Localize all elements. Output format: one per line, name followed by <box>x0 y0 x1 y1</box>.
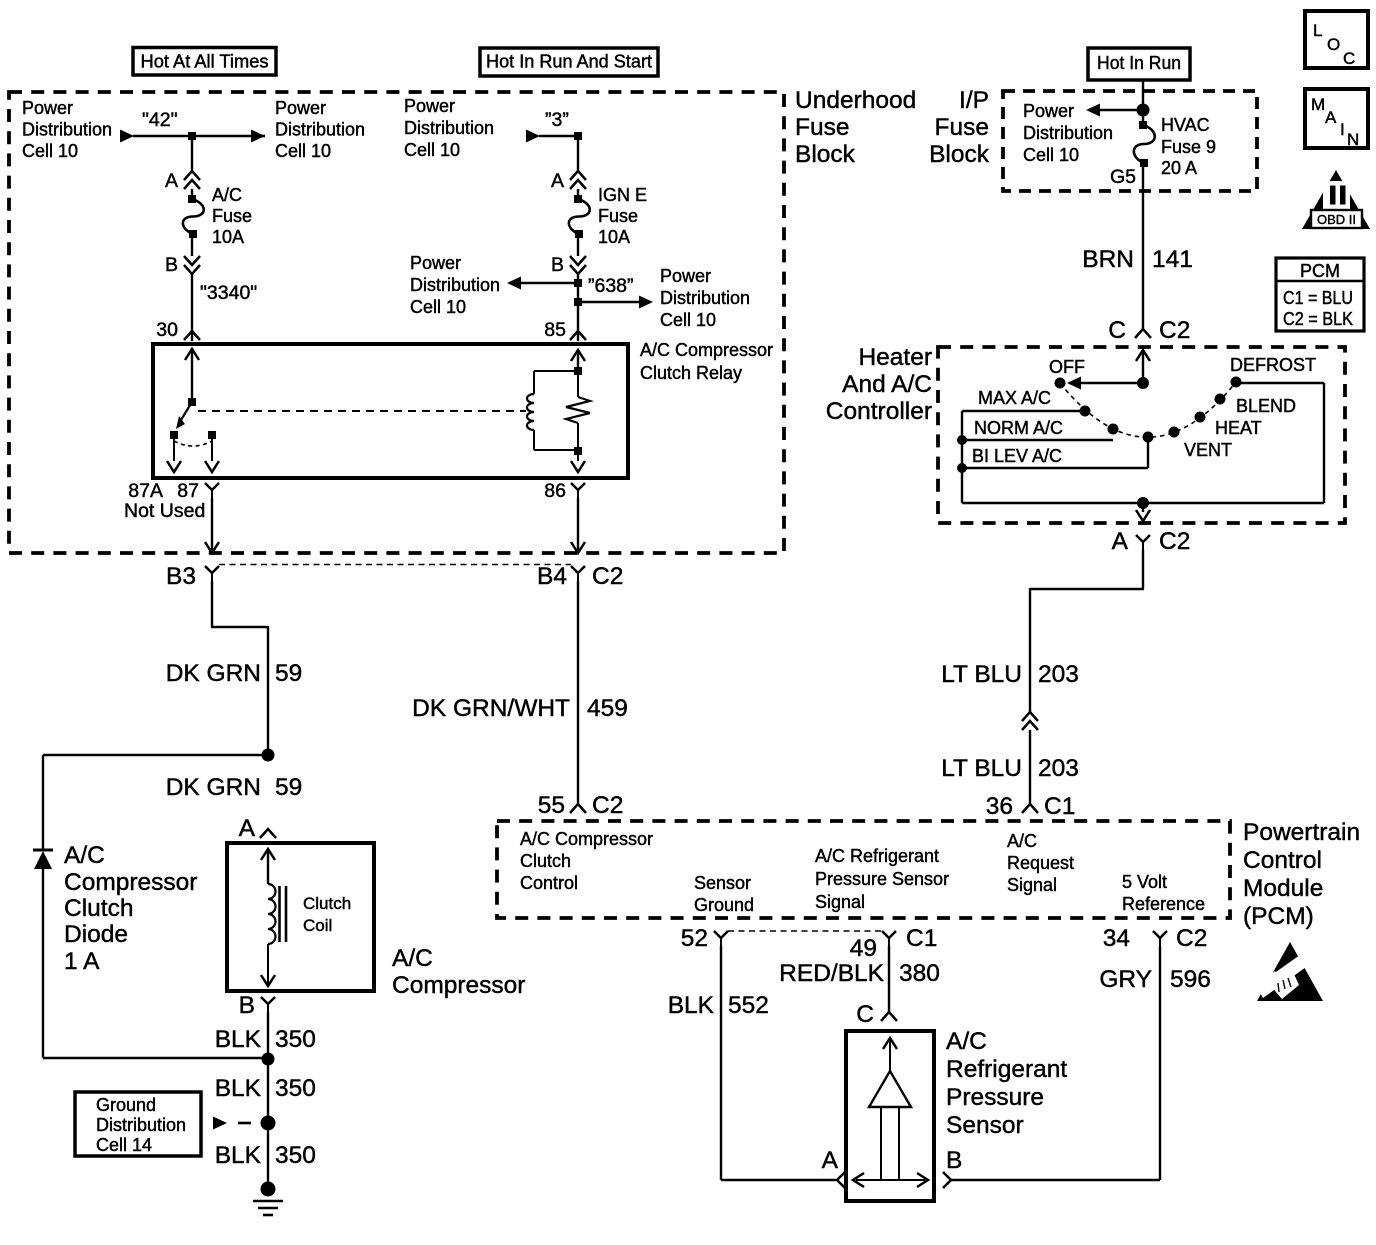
svg-text:Sensor: Sensor <box>946 1112 1024 1139</box>
label BLEND <box>1236 396 1296 416</box>
svg-text:M: M <box>1311 95 1325 114</box>
svg-text:Hot At All Times: Hot At All Times <box>141 52 269 72</box>
label BLK 350 (3) <box>215 1142 316 1169</box>
label MAX A/C <box>978 388 1051 408</box>
connector female sensor B <box>943 1172 951 1188</box>
svg-text:LT BLU: LT BLU <box>941 755 1022 782</box>
connector female B3 <box>205 566 219 581</box>
svg-text:Distribution: Distribution <box>275 120 365 140</box>
svg-text:Clutch: Clutch <box>303 894 351 913</box>
wire NORM A/C line <box>962 439 1113 441</box>
svg-text:OFF: OFF <box>1049 357 1085 377</box>
rotary contact HEAT <box>1195 412 1206 423</box>
svg-text:203: 203 <box>1038 661 1079 688</box>
label LT BLU 203 (upper) <box>941 661 1079 688</box>
svg-text:BI LEV A/C: BI LEV A/C <box>972 446 1062 466</box>
svg-text:IGN E: IGN E <box>598 185 647 205</box>
label C2 (at B4) <box>592 563 623 590</box>
svg-text:Hot In Run: Hot In Run <box>1097 53 1181 73</box>
label HEAT <box>1215 418 1262 438</box>
rotary contact VENT <box>1169 427 1180 438</box>
rotary contact DEFROST <box>1231 377 1242 388</box>
junction node left bus / NORM <box>957 435 967 445</box>
MAIN reference box <box>1305 89 1368 149</box>
svg-text:DK GRN: DK GRN <box>166 774 261 801</box>
svg-text:Ground: Ground <box>694 895 754 915</box>
svg-text:A/C: A/C <box>946 1028 987 1055</box>
fuse F IGN E 10A <box>569 195 590 238</box>
rotary switch dashed arc <box>1060 382 1236 437</box>
svg-text:Pressure Sensor: Pressure Sensor <box>815 869 949 889</box>
svg-text:5 Volt: 5 Volt <box>1122 872 1167 892</box>
wire down to fuse terminal A <box>191 136 193 171</box>
label '638' <box>588 275 634 297</box>
wire controller A to inline connector (LT BLU) <box>1030 550 1144 712</box>
svg-text:"3340": "3340" <box>200 282 257 304</box>
sensor pressure arrow left leg <box>880 1107 882 1179</box>
svg-text:MAX A/C: MAX A/C <box>978 388 1051 408</box>
label C1 (at 36) <box>1044 793 1075 820</box>
label DEFROST <box>1230 355 1316 375</box>
label G5 <box>1110 166 1136 188</box>
svg-text:”638”: ”638” <box>588 275 634 297</box>
svg-text:86: 86 <box>544 480 566 502</box>
svg-text:Control: Control <box>1243 847 1322 874</box>
svg-text:Hot In Run And Start: Hot In Run And Start <box>486 52 652 72</box>
label Sensor Ground <box>694 873 754 915</box>
svg-text:Cell 10: Cell 10 <box>660 310 716 330</box>
label '3' <box>545 109 569 131</box>
svg-text:596: 596 <box>1170 966 1211 993</box>
svg-text:DEFROST: DEFROST <box>1230 355 1316 375</box>
sensor pressure double arrow <box>853 1173 928 1187</box>
svg-text:O: O <box>1327 35 1340 54</box>
svg-text:87A: 87A <box>128 480 163 502</box>
svg-text:Distribution: Distribution <box>96 1115 186 1135</box>
svg-text:36: 36 <box>986 793 1013 820</box>
svg-text:459: 459 <box>587 695 628 722</box>
svg-text:Compressor: Compressor <box>392 972 525 999</box>
relay coil (inductor) <box>527 394 534 430</box>
connector female B4 <box>571 566 585 581</box>
connector male compressor A <box>260 829 276 838</box>
svg-text:G5: G5 <box>1110 166 1136 188</box>
svg-text:BRN: BRN <box>1082 246 1134 273</box>
rotary contact OFF <box>1055 378 1066 389</box>
arrow to Power Distribution (right) <box>251 130 265 143</box>
wire 49 to sensor C (RED/BLK) <box>888 946 890 1012</box>
label pin 86 <box>544 480 566 502</box>
wire+arrow to Power Distribution (right of 638) <box>578 296 653 309</box>
relay coil bottom junction square <box>574 447 582 455</box>
svg-text:(PCM): (PCM) <box>1243 903 1314 930</box>
svg-text:BLK: BLK <box>215 1075 262 1102</box>
svg-text:OBD II: OBD II <box>1317 212 1356 227</box>
svg-text:Not Used: Not Used <box>124 500 205 522</box>
svg-text:Underhood: Underhood <box>795 87 916 114</box>
connector female pin 87 <box>205 483 219 498</box>
controller bottom bus <box>962 502 1324 504</box>
svg-text:Distribution: Distribution <box>1023 123 1113 143</box>
label '3340' <box>200 282 257 304</box>
fuse F A/C 10A <box>183 195 204 238</box>
wire 34 to sensor B (GRY) <box>951 946 1160 1180</box>
label Heater And A/C Controller <box>826 344 932 425</box>
sensor input lead with up arrow <box>883 1038 897 1071</box>
label HVAC Fuse 9 20 A <box>1161 115 1216 178</box>
controller output lead with down arrow <box>1136 503 1150 521</box>
svg-text:A: A <box>165 170 178 192</box>
svg-text:C2 = BLK: C2 = BLK <box>1283 309 1353 329</box>
svg-text:Coil: Coil <box>303 916 332 935</box>
svg-text:NORM A/C: NORM A/C <box>974 418 1063 438</box>
arrow from Power Distribution into '3' bus <box>526 130 540 143</box>
svg-text:Cell 10: Cell 10 <box>275 141 331 161</box>
label IGN E Fuse 10A <box>598 185 647 247</box>
connector male pin 30 <box>184 331 200 340</box>
relay box A/C Compressor Clutch Relay <box>153 344 628 478</box>
text Power Distribution Cell 10 (I/P) <box>1023 101 1113 165</box>
label BLK 350 (2) <box>215 1075 316 1102</box>
controller left bus <box>961 411 963 503</box>
label A/C Compressor Clutch Diode 1 A <box>64 842 197 975</box>
label BLK 552 <box>668 992 769 1019</box>
svg-text:Fuse: Fuse <box>935 114 989 141</box>
wire+arrow to OFF contact <box>1067 377 1143 390</box>
wire '638' bus segment <box>577 274 579 341</box>
svg-text:Power: Power <box>660 266 711 286</box>
connector male 36 <box>1022 804 1038 813</box>
label Powertrain Control Module (PCM) <box>1243 819 1360 930</box>
wire A to IGN E fuse <box>577 189 579 199</box>
junction square node 3/IGNE-fuse <box>574 132 582 140</box>
label A/C Compressor Clutch Control <box>520 829 653 893</box>
diode A/C compressor clutch diode <box>33 850 53 869</box>
clutch coil bottom lead with down arrow <box>261 944 275 986</box>
relay resistor upper lead <box>577 375 579 397</box>
wire '42' horizontal bus <box>133 135 265 137</box>
relay 87 lead with down arrow <box>205 439 219 472</box>
label B (A/C fuse term) <box>165 254 178 276</box>
text Power Distribution Cell 10 (mid feed) <box>404 96 494 160</box>
svg-text:380: 380 <box>899 960 940 987</box>
relay resistor zigzag <box>566 397 590 423</box>
A/C compressor box <box>227 843 374 991</box>
svg-text:A: A <box>239 815 256 842</box>
connector pair A (IGN E, double chevron) <box>570 171 586 189</box>
connector female 34 <box>1153 931 1167 946</box>
label 49 <box>850 935 877 962</box>
text Power Distribution Cell 10 (right of 638) <box>660 266 750 330</box>
label C2 (at 55) <box>592 792 623 819</box>
svg-text:Cell 10: Cell 10 <box>22 141 78 161</box>
Underhood Fuse Block dashed enclosure <box>9 92 784 553</box>
wire '3' horizontal <box>539 135 578 137</box>
svg-text:C1: C1 <box>906 925 937 952</box>
wire pin86 to fuse-block edge <box>571 498 585 553</box>
inline connector (double chevron) <box>1022 712 1038 730</box>
junction square node 638 right <box>574 298 582 306</box>
svg-text:C2: C2 <box>1159 317 1190 344</box>
connector female pin 86 <box>571 483 585 498</box>
svg-text:Clutch: Clutch <box>520 851 571 871</box>
svg-text:A/C: A/C <box>1007 831 1037 851</box>
svg-text:B: B <box>551 254 564 276</box>
label A/C Refrigerant Pressure Sensor <box>946 1028 1067 1139</box>
label box 'Hot In Run' <box>1088 48 1190 80</box>
svg-text:Fuse 9: Fuse 9 <box>1161 137 1216 157</box>
label Underhood Fuse Block <box>795 87 916 168</box>
svg-text:Distribution: Distribution <box>410 275 500 295</box>
svg-text:Signal: Signal <box>1007 875 1057 895</box>
controller input lead with up arrow <box>1136 350 1150 383</box>
label I/P Fuse Block <box>929 87 990 168</box>
svg-text:Cell 10: Cell 10 <box>410 297 466 317</box>
svg-text:A: A <box>551 170 564 192</box>
svg-text:A: A <box>1112 528 1129 555</box>
wire DEFROST to right bus <box>1236 383 1324 503</box>
svg-text:Clutch Relay: Clutch Relay <box>640 363 742 383</box>
label '42' <box>142 109 178 131</box>
svg-text:Power: Power <box>1023 101 1074 121</box>
relay 87A lead with down arrow <box>167 439 181 472</box>
label C (controller pin) <box>1108 317 1126 344</box>
svg-text:Block: Block <box>929 141 990 168</box>
svg-text:Diode: Diode <box>64 921 128 948</box>
svg-text:20 A: 20 A <box>1161 158 1197 178</box>
svg-text:Power: Power <box>275 98 326 118</box>
label A/C Compressor <box>392 945 525 999</box>
relay dashed arc between contacts <box>174 441 212 446</box>
fine dashed connector line B3-B4 <box>219 564 571 566</box>
svg-text:BLK: BLK <box>215 1026 262 1053</box>
connector pair B (double chevron down) <box>184 256 200 274</box>
label A (controller out) <box>1112 528 1129 555</box>
OBD II symbol <box>1302 170 1370 229</box>
wire+arrow to Power Distribution (left) <box>507 277 578 290</box>
ESD sensitivity symbol <box>1256 942 1323 1001</box>
svg-text:10A: 10A <box>212 227 244 247</box>
junction square node 42/A-fuse <box>188 132 196 140</box>
svg-text:A/C: A/C <box>212 185 242 205</box>
PCM connector legend box <box>1276 258 1364 331</box>
label C (sensor pin) <box>856 1001 874 1028</box>
svg-text:L: L <box>1313 21 1322 40</box>
svg-text:Cell 14: Cell 14 <box>96 1135 152 1155</box>
rotary wiper contact <box>1143 432 1154 443</box>
wire BRN 141 down to controller <box>1142 163 1144 329</box>
svg-text:N: N <box>1347 130 1359 149</box>
svg-text:C: C <box>856 1001 874 1028</box>
connector female controller A <box>1136 535 1150 550</box>
relay pin85 internal line with up arrow <box>571 350 585 371</box>
svg-text:Refrigerant: Refrigerant <box>946 1056 1067 1083</box>
svg-text:Block: Block <box>795 141 856 168</box>
rotary contact NORM A/C <box>1108 424 1119 435</box>
label GRY 596 <box>1099 966 1211 993</box>
svg-text:GRY: GRY <box>1099 966 1152 993</box>
svg-text:350: 350 <box>275 1142 316 1169</box>
label LT BLU 203 (lower) <box>941 755 1079 782</box>
svg-text:A/C Compressor: A/C Compressor <box>640 340 773 360</box>
label C2 (at controller C) <box>1159 317 1190 344</box>
label BI LEV A/C <box>972 446 1062 466</box>
connector pair A (double chevron) <box>184 171 200 189</box>
wire diode to ground branch <box>43 869 264 1058</box>
arrow from Power Distribution into '42' bus <box>120 130 134 143</box>
label 55 <box>538 792 565 819</box>
label 34 <box>1103 925 1130 952</box>
wire Hot In Run into HVAC fuse <box>1142 80 1144 125</box>
label VENT <box>1184 440 1232 460</box>
wire LT BLU lower segment <box>1029 730 1031 804</box>
label B (compressor pin) <box>239 992 255 1019</box>
label B (sensor pin) <box>946 1147 962 1174</box>
svg-text:LT BLU: LT BLU <box>941 661 1022 688</box>
connector female compressor B <box>261 997 275 1012</box>
svg-text:Module: Module <box>1243 875 1323 902</box>
label OFF <box>1049 357 1085 377</box>
connector male sensor C <box>881 1012 897 1021</box>
svg-text:B: B <box>946 1147 962 1174</box>
svg-text:HVAC: HVAC <box>1161 115 1210 135</box>
wire A to fuse <box>191 189 193 199</box>
svg-text:Cell 10: Cell 10 <box>404 140 460 160</box>
svg-text:Fuse: Fuse <box>212 206 252 226</box>
svg-text:C: C <box>1343 49 1355 68</box>
svg-text:C2: C2 <box>1176 925 1207 952</box>
label B4 <box>537 563 567 590</box>
connector male 55 <box>570 804 586 813</box>
ground G symbol <box>253 1182 283 1216</box>
svg-text:10A: 10A <box>598 227 630 247</box>
svg-text:PCM: PCM <box>1300 261 1340 281</box>
relay pin30 internal line with up arrow <box>185 349 199 402</box>
relay contact square 87 <box>208 431 216 439</box>
connector male pin 85 <box>570 331 586 340</box>
svg-text:52: 52 <box>681 925 708 952</box>
wire B3 to A/C compressor (DK GRN) <box>211 581 268 755</box>
clutch coil core bars <box>280 886 287 942</box>
connector female 49 <box>882 931 896 946</box>
Heater and A/C Controller dashed enclosure <box>938 347 1345 523</box>
svg-text:A/C Refrigerant: A/C Refrigerant <box>815 846 939 866</box>
svg-text:59: 59 <box>275 660 302 687</box>
svg-text:DK GRN/WHT: DK GRN/WHT <box>412 695 570 722</box>
svg-text:34: 34 <box>1103 925 1130 952</box>
svg-text:C2: C2 <box>592 792 623 819</box>
label box 'Hot At All Times' <box>133 48 276 76</box>
svg-text:59: 59 <box>275 774 302 801</box>
text Power Distribution Cell 10 (left of 638) <box>410 253 500 317</box>
ground distribution callout box <box>75 1092 201 1156</box>
svg-text:I: I <box>1340 120 1345 139</box>
fuse F HVAC Fuse 9 20A <box>1134 121 1155 167</box>
label Clutch Coil <box>303 894 351 935</box>
junction node diode tap <box>262 749 275 762</box>
svg-text:Powertrain: Powertrain <box>1243 819 1360 846</box>
svg-text:C: C <box>1108 317 1126 344</box>
label pin 87A <box>128 480 163 502</box>
svg-text:DK GRN: DK GRN <box>166 660 261 687</box>
label A/C Fuse 10A <box>212 185 252 247</box>
svg-text:85: 85 <box>544 319 566 341</box>
label NORM A/C <box>974 418 1063 438</box>
svg-text:Pressure: Pressure <box>946 1084 1044 1111</box>
label C1 (at 49) <box>906 925 937 952</box>
label 36 <box>986 793 1013 820</box>
connector pair B (IGN E, double chevron down) <box>570 256 586 274</box>
junction node HVAC feed <box>1137 104 1150 117</box>
svg-text:B: B <box>165 254 178 276</box>
label A/C Refrigerant Pressure Sensor Signal <box>815 846 949 912</box>
wire down to IGN E fuse terminal A <box>577 136 579 171</box>
label 52 <box>681 925 708 952</box>
svg-text:And A/C: And A/C <box>842 371 932 398</box>
svg-text:350: 350 <box>275 1075 316 1102</box>
svg-text:Controller: Controller <box>826 398 932 425</box>
svg-text:B4: B4 <box>537 563 567 590</box>
svg-text:Power: Power <box>404 96 455 116</box>
svg-text:203: 203 <box>1038 755 1079 782</box>
svg-text:”3”: ”3” <box>545 109 569 131</box>
svg-text:C1 = BLU: C1 = BLU <box>1283 288 1353 308</box>
junction square node 638 left <box>574 279 582 287</box>
label BLK 350 (1) <box>215 1026 316 1053</box>
label box 'Hot In Run And Start' <box>480 48 658 76</box>
label A (sensor pin) <box>822 1147 839 1174</box>
svg-text:Reference: Reference <box>1122 894 1205 914</box>
wire 52 to sensor A (BLK) <box>721 946 836 1180</box>
label C2 (controller out) <box>1159 528 1190 555</box>
svg-text:A/C: A/C <box>392 945 433 972</box>
connector male controller C <box>1135 329 1151 338</box>
junction node left bus / BI LEV <box>957 463 967 473</box>
rotary contact BLEND <box>1215 394 1226 405</box>
svg-text:1 A: 1 A <box>64 948 100 975</box>
label DK GRN 59 (lower) <box>166 774 303 801</box>
svg-text:B3: B3 <box>166 563 196 590</box>
svg-text:HEAT: HEAT <box>1215 418 1262 438</box>
svg-text:Distribution: Distribution <box>660 288 750 308</box>
svg-text:BLEND: BLEND <box>1236 396 1296 416</box>
rotary contact MAX A/C <box>1080 406 1091 417</box>
label DK GRN/WHT 459 <box>412 695 628 722</box>
sensor pressure arrow right leg <box>898 1107 900 1179</box>
label A (A/C fuse term) <box>165 170 178 192</box>
label pin 87 <box>177 480 199 502</box>
fine dashed connector line 52-49 <box>728 930 882 932</box>
svg-text:Signal: Signal <box>815 892 865 912</box>
label DK GRN 59 (upper) <box>166 660 303 687</box>
wire compressor B to ground (BLK) <box>267 1012 269 1189</box>
A/C refrigerant pressure sensor box <box>846 1031 934 1201</box>
svg-text:Fuse: Fuse <box>598 206 638 226</box>
wire pin87 to fuse-block edge <box>205 498 219 553</box>
relay switch pivot square <box>188 398 196 406</box>
label A (compressor pin) <box>239 815 256 842</box>
junction node controller input <box>1137 377 1149 389</box>
svg-text:"42": "42" <box>142 109 178 131</box>
wire MAX A/C contact to left bus <box>962 410 1080 412</box>
label RED/BLK 380 <box>779 960 940 987</box>
svg-text:A/C Compressor: A/C Compressor <box>520 829 653 849</box>
svg-text:C1: C1 <box>1044 793 1075 820</box>
wire wiper stem <box>1147 437 1149 468</box>
svg-text:87: 87 <box>177 480 199 502</box>
svg-text:30: 30 <box>156 319 178 341</box>
svg-text:Power: Power <box>22 98 73 118</box>
